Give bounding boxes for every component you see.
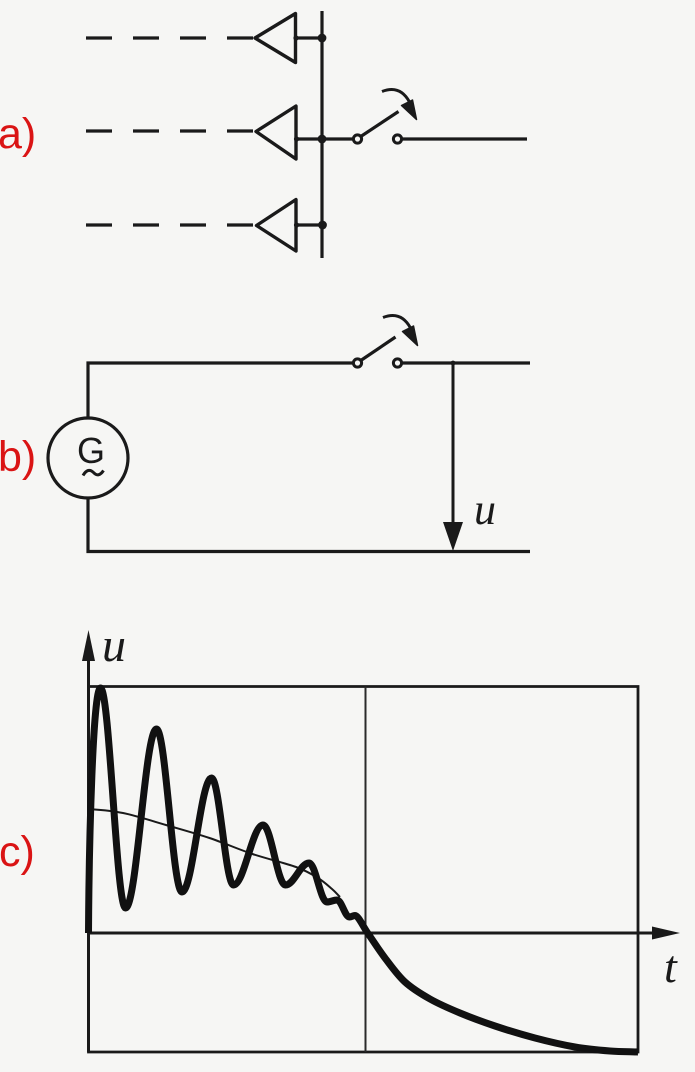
axis t arrowhead (652, 927, 680, 940)
generator U1 circle (48, 418, 128, 498)
wire generator top to switch S2 (86, 363, 352, 418)
switch S1 contact circle right (393, 135, 401, 143)
axis u vertical (87, 655, 90, 1052)
svg-text:a): a) (0, 110, 36, 158)
wire generator bottom loop (86, 498, 530, 552)
graph frame box (89, 687, 639, 1053)
wire switch S2 to right (403, 361, 531, 364)
axis u arrowhead (82, 630, 95, 661)
svg-text:b): b) (0, 433, 36, 481)
node junction top right (451, 361, 456, 366)
node junction row 2 (318, 135, 327, 144)
amplifier triangle row 1 (255, 14, 296, 63)
node junction row 1 (318, 34, 327, 43)
wire dashed row 3 (86, 223, 256, 226)
switch S1 arm blade (362, 112, 399, 137)
wire bus to switch S1 (322, 137, 353, 140)
svg-text:t: t (664, 941, 678, 992)
switch S1 actuation arrow (382, 90, 410, 103)
graph inner vertical line (365, 687, 367, 1053)
wire switch S1 to output (403, 137, 528, 140)
voltage arrow u head (443, 522, 463, 551)
switch S2 arm blade (362, 337, 396, 360)
voltage arrow u line (452, 363, 455, 525)
wire dashed row 1 (86, 36, 255, 39)
svg-text:G: G (77, 430, 105, 471)
bus vertical line (320, 11, 323, 258)
amplifier triangle row 3 (257, 200, 297, 252)
axis t horizontal (89, 932, 656, 935)
switch S2 actuation arrow (383, 316, 411, 329)
svg-text:u: u (102, 619, 126, 672)
wire dashed row 2 (86, 129, 256, 132)
amplifier triangle row 2 (256, 106, 296, 159)
wire stub row 1 (296, 36, 323, 39)
switch S2 contact circle left (353, 359, 361, 367)
generator U1 tilde (83, 470, 104, 475)
envelope curve thin (89, 809, 341, 897)
svg-text:c): c) (0, 828, 35, 876)
switch S2 contact circle right (393, 359, 401, 367)
switch S1 contact circle left (353, 135, 361, 143)
wire stub row 3 (296, 223, 322, 226)
node junction row 3 (318, 221, 327, 230)
wire stub row 2 (296, 137, 322, 140)
damped oscillation curve thick (89, 688, 639, 1052)
svg-text:u: u (474, 485, 496, 534)
